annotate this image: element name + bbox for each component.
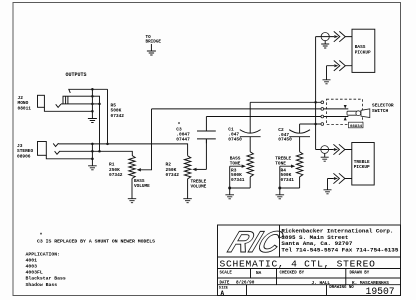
connector bass return	[334, 64, 338, 67]
node J2 barrel-right junction	[98, 103, 101, 106]
svg-text:19507: 19507	[366, 286, 395, 297]
svg-text:OUTPUTS: OUTPUTS	[66, 72, 87, 78]
svg-text:TONE: TONE	[230, 161, 241, 166]
wire treble pickup hot horizontal	[316, 149, 352, 151]
svg-text:BASS: BASS	[134, 179, 145, 184]
wire J2 tip spring	[69, 89, 108, 93]
selector throw arrow upper	[344, 105, 347, 109]
svg-text:07342: 07342	[109, 172, 123, 178]
jack J2 plug barrel	[63, 96, 100, 104]
wire R1 to ground	[131, 179, 133, 199]
ground (J2 jack)	[91, 111, 93, 118]
selector terminal 4	[321, 123, 324, 126]
selector terminal 3	[321, 115, 324, 118]
svg-text:C1: C1	[228, 127, 234, 133]
wire J3 sleeve to ground	[46, 144, 92, 159]
svg-text:4003: 4003	[26, 264, 38, 270]
svg-text:NA: NA	[256, 271, 262, 276]
resistor R3 bass tone pot	[247, 152, 253, 177]
resistor R1 bass volume pot	[129, 156, 135, 179]
svg-text:07342: 07342	[166, 172, 180, 178]
svg-text:R4: R4	[281, 167, 287, 173]
svg-text:J2: J2	[18, 95, 24, 101]
svg-text:MONO: MONO	[18, 100, 29, 106]
svg-text:C2: C2	[278, 127, 284, 133]
svg-text:08011: 08011	[18, 105, 32, 111]
svg-text:C3 IS REPLACED BY A SHUNT ON N: C3 IS REPLACED BY A SHUNT ON NEWER MODEL…	[37, 238, 155, 244]
svg-text:Blackstar Bass: Blackstar Bass	[26, 276, 66, 282]
svg-text:DATE: DATE	[220, 281, 230, 285]
ground (R2)	[183, 199, 192, 203]
ground (treble return)	[327, 179, 329, 190]
wire bus4 (C2 top to selector T4)	[300, 123, 321, 125]
wire R2 to ground	[187, 179, 189, 199]
svg-text:Tel 714-545-5574 Fax 714-754-: Tel 714-545-5574 Fax 714-754-6135	[281, 246, 398, 253]
svg-text:07450: 07450	[278, 137, 292, 143]
svg-text:BASS: BASS	[355, 45, 366, 50]
node J2 barrel-top junction	[91, 95, 94, 98]
title block grid	[218, 225, 401, 296]
selector toggle lever	[347, 111, 357, 115]
label selector part number 08834	[349, 122, 364, 128]
wire bass pickup return	[327, 65, 353, 67]
connector treble return	[334, 177, 338, 180]
svg-text:.047: .047	[278, 132, 289, 138]
svg-text:J3: J3	[17, 143, 23, 149]
selector terminal 2	[321, 108, 324, 111]
wire busA (J3 tip to treble volume)	[59, 144, 188, 156]
svg-text:500K: 500K	[111, 108, 122, 114]
svg-text:SCHEMATIC, 4 CTL, STEREO: SCHEMATIC, 4 CTL, STEREO	[220, 258, 376, 269]
svg-text:J. HALL: J. HALL	[312, 281, 331, 286]
svg-text:08906: 08906	[17, 153, 31, 159]
wire bus3 (C3 top to selector T3)	[206, 116, 321, 118]
ground (treble shield)	[324, 153, 326, 157]
wire bass pickup hot horizontal	[316, 36, 352, 38]
svg-text:*: *	[40, 233, 43, 239]
svg-text:SELECTOR: SELECTOR	[372, 103, 394, 109]
svg-text:Shadow Bass: Shadow Bass	[26, 282, 58, 288]
svg-text:250K: 250K	[109, 167, 120, 173]
wire J2 vertical bus	[91, 89, 93, 111]
logo RIC	[224, 225, 288, 259]
wiper R3 (arrow)	[242, 165, 246, 168]
svg-text:*: *	[178, 122, 181, 128]
svg-text:07341: 07341	[281, 177, 295, 183]
svg-text:4001: 4001	[26, 257, 38, 263]
shield circle (bass)	[321, 33, 329, 41]
svg-text:TREBLE: TREBLE	[275, 157, 291, 162]
ground (R1)	[128, 199, 136, 203]
svg-text:C3: C3	[176, 127, 182, 133]
connector treble hot	[334, 148, 338, 151]
svg-text:DRAWING NO: DRAWING NO	[329, 286, 354, 290]
wire C3 bottom to R2 wiper	[205, 139, 207, 170]
ground (to bridge)	[150, 44, 152, 51]
svg-text:BASS: BASS	[230, 157, 241, 162]
svg-text:.0047: .0047	[176, 132, 190, 138]
svg-text:07341: 07341	[231, 177, 245, 183]
svg-text:CHECKED BY: CHECKED BY	[280, 272, 305, 276]
capacitor C1	[249, 102, 251, 133]
node R4 wiper-ground junction	[278, 187, 281, 190]
node treble-pickup tap on bus4	[314, 123, 317, 126]
svg-text:.047: .047	[228, 132, 239, 138]
jack J3 tip contact	[53, 143, 58, 146]
pickup TREBLE PICKUP	[352, 143, 374, 186]
jack J3 body	[38, 142, 47, 156]
node R5-busA junction	[106, 143, 109, 146]
node R3 wiper-ground junction	[228, 187, 231, 190]
node bass-pickup tap on bus1	[314, 101, 317, 104]
svg-text:PICKUP: PICKUP	[355, 50, 371, 55]
wire selector T2 internal	[324, 108, 349, 110]
ground (J3 jack)	[91, 159, 93, 166]
resistor R2 treble volume pot	[184, 156, 190, 179]
svg-text:TONE: TONE	[275, 161, 286, 166]
svg-text:VOLUME: VOLUME	[134, 184, 150, 189]
svg-text:08834: 08834	[350, 125, 363, 129]
svg-text:SWITCH: SWITCH	[372, 108, 389, 114]
ground (bass return)	[326, 66, 328, 80]
svg-text:A: A	[221, 290, 225, 297]
svg-text:VOLUME: VOLUME	[191, 184, 207, 189]
wire treble pickup hot vertical	[315, 124, 317, 150]
svg-text:07342: 07342	[111, 113, 125, 119]
wiper R1 (arrow)	[137, 168, 141, 171]
svg-text:500K: 500K	[231, 172, 242, 178]
resistor R4 treble tone pot	[296, 152, 302, 177]
svg-text:8/26/90: 8/26/90	[236, 281, 255, 286]
wire selector T3 internal	[324, 116, 349, 118]
svg-text:STEREO: STEREO	[17, 148, 34, 154]
svg-text:SCALE: SCALE	[220, 272, 233, 276]
connector bass hot	[334, 35, 338, 38]
svg-text:R1: R1	[109, 162, 115, 168]
capacitor C2	[299, 124, 301, 133]
wire J2 sleeve	[44, 107, 92, 111]
svg-text:RIC: RIC	[224, 225, 288, 259]
svg-text:PICKUP: PICKUP	[354, 165, 370, 170]
svg-text:07450: 07450	[228, 137, 242, 143]
node J3 sleeve-busB junction	[91, 150, 94, 153]
svg-text:TO: TO	[146, 35, 152, 40]
wiper R4 (arrow)	[291, 165, 295, 168]
wiper R2 (arrow)	[192, 168, 196, 171]
svg-text:TREBLE: TREBLE	[191, 180, 207, 185]
selector terminal 1	[321, 101, 324, 104]
node J3 sleeve corner	[91, 158, 94, 161]
svg-text:APPLICATION:: APPLICATION:	[26, 251, 61, 257]
svg-text:4003FL: 4003FL	[26, 270, 43, 276]
node J2 tip-bus junction	[91, 88, 94, 91]
jack J2 tip switch contact	[56, 104, 61, 107]
svg-text:07447: 07447	[176, 137, 190, 143]
ground (R4)	[279, 188, 281, 195]
wire treble pickup return	[328, 178, 352, 180]
jack J3 ring contact	[55, 151, 60, 154]
svg-text:TREBLE: TREBLE	[354, 160, 370, 165]
svg-text:R2: R2	[166, 162, 172, 168]
svg-text:DRAWN BY: DRAWN BY	[350, 272, 370, 276]
svg-text:500K: 500K	[281, 172, 292, 178]
svg-text:BRIDGE: BRIDGE	[146, 40, 162, 45]
shield circle (treble)	[321, 146, 329, 154]
jack J2 body	[38, 95, 45, 107]
pickup BASS PICKUP	[352, 29, 375, 72]
wire J2-barrel drop to busB	[99, 104, 101, 151]
node J3 sleeve-busA junction	[91, 143, 94, 146]
svg-text:R3: R3	[231, 167, 237, 173]
node J2-drop busB junction	[98, 150, 101, 153]
wire busB (J3 ring to bass volume)	[60, 151, 132, 155]
capacitor C3	[205, 117, 207, 132]
svg-text:250K: 250K	[166, 167, 177, 173]
ground (R3)	[229, 188, 231, 195]
selector switch dashed body	[327, 99, 363, 124]
wire bus2 (R1 wiper to selector T2)	[152, 108, 321, 110]
selector throw arrow lower	[344, 117, 347, 121]
svg-text:R5: R5	[111, 102, 117, 108]
ground (bass shield)	[324, 41, 326, 44]
node J2 barrel-bottom junction	[91, 103, 94, 106]
resistor R5 (drawn as wire drop)	[107, 89, 109, 144]
node J2 sleeve junction	[91, 110, 94, 113]
wire bus1 (C1 top to selector T1)	[250, 101, 321, 103]
wire bass pickup hot vertical	[315, 37, 317, 124]
